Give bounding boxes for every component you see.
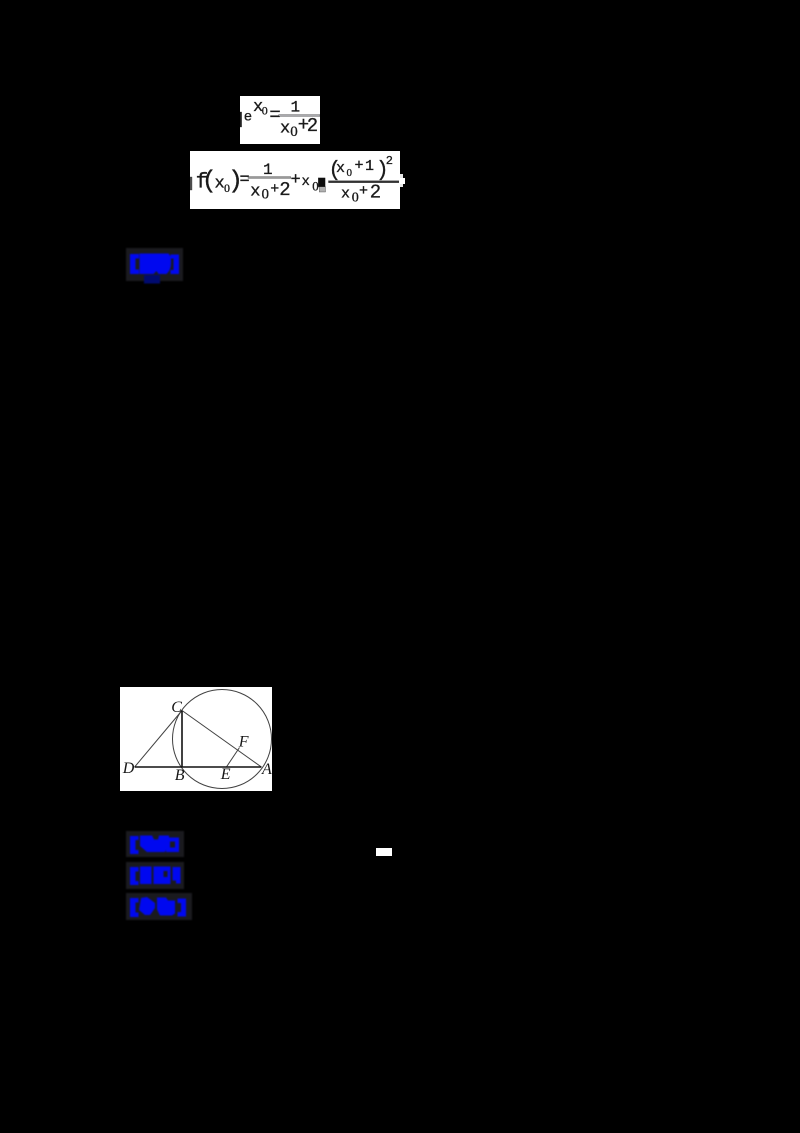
blue label 2 bbox=[125, 830, 187, 858]
wire segment E-F bbox=[226, 748, 239, 768]
svg-text:x: x bbox=[250, 183, 260, 202]
tiny white plus sticking out of box2 right edge bbox=[400, 174, 403, 187]
geometry figure bbox=[120, 687, 272, 791]
formula box 1: e^x0 = 1/(x0+2) bbox=[240, 96, 320, 144]
formula box 2: f(x0)=1/(x0+2)+x0*(x0+1)^2/(x0+2) bbox=[190, 151, 400, 209]
svg-text:x: x bbox=[280, 119, 290, 138]
circumcircle of triangle ABC bbox=[173, 690, 272, 789]
svg-text:0: 0 bbox=[262, 103, 268, 117]
svg-text:2: 2 bbox=[370, 182, 381, 204]
svg-text:x: x bbox=[336, 160, 345, 177]
svg-text:A: A bbox=[261, 761, 272, 778]
svg-text:x: x bbox=[302, 174, 310, 190]
svg-text:0: 0 bbox=[312, 179, 319, 194]
svg-text:=: = bbox=[240, 171, 250, 190]
svg-text:e: e bbox=[244, 110, 252, 126]
svg-text:2: 2 bbox=[279, 179, 290, 201]
svg-text:0: 0 bbox=[290, 124, 298, 140]
altitude C-B bbox=[181, 711, 183, 768]
svg-text:C: C bbox=[171, 699, 182, 716]
svg-text:0: 0 bbox=[347, 167, 353, 179]
svg-text:x: x bbox=[341, 186, 350, 203]
svg-text:F: F bbox=[238, 734, 249, 751]
svg-text:2: 2 bbox=[307, 115, 318, 137]
blue label 4 bbox=[125, 892, 193, 921]
svg-text:+: + bbox=[355, 157, 364, 174]
svg-text:+: + bbox=[359, 183, 368, 200]
svg-text:1: 1 bbox=[365, 158, 374, 175]
svg-text:0: 0 bbox=[352, 190, 359, 205]
svg-text:+: + bbox=[291, 171, 301, 190]
blue label 3 bbox=[125, 861, 187, 890]
svg-text:E: E bbox=[220, 766, 231, 783]
blue label 1 bbox=[125, 247, 187, 287]
baseline D-A bbox=[135, 766, 262, 768]
wire segment D-C bbox=[135, 711, 182, 768]
wire segment C-A bbox=[182, 711, 261, 768]
svg-text:D: D bbox=[122, 760, 135, 777]
white dash bbox=[376, 848, 392, 856]
svg-text:+: + bbox=[270, 181, 279, 198]
svg-text:2: 2 bbox=[386, 154, 393, 168]
svg-text:1: 1 bbox=[263, 161, 273, 179]
svg-text:0: 0 bbox=[262, 187, 270, 203]
svg-text:B: B bbox=[175, 767, 185, 784]
